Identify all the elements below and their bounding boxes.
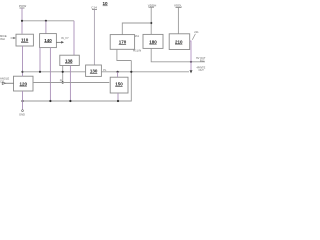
wire branch to block 170: [122, 23, 151, 35]
wire block 150 bottom pin: [117, 93, 119, 101]
wire block 120 bottom to ground terminal: [22, 91, 24, 110]
block 140: [40, 34, 57, 48]
svg-text:161: 161: [135, 35, 140, 38]
svg-text:170: 170: [119, 40, 127, 45]
node junction bus/B2: [45, 20, 47, 22]
block 130: [86, 65, 102, 76]
label 211 with leader: [192, 30, 199, 40]
svg-text:110: 110: [21, 38, 29, 43]
wire C14 stem down to block 130: [93, 9, 95, 65]
wire L1 horizontal right: [101, 71, 189, 73]
svg-text:180: 180: [149, 39, 157, 44]
wire input arrow into block 120: [2, 82, 13, 84]
node junction bus left end: [21, 100, 23, 102]
wire block 138 pin 1 down to L2: [62, 66, 64, 83]
label ANGLE CO input: [0, 77, 9, 84]
node junction on L2: [62, 81, 64, 83]
node junction L1 drop to block 150: [117, 71, 119, 73]
block 110: [16, 34, 33, 46]
wire block 210 output right then down: [190, 41, 191, 70]
node junction bus/70: [69, 100, 71, 102]
node junction on L1: [39, 71, 41, 73]
node junction on bottom bus: [117, 100, 119, 102]
svg-text:120: 120: [20, 81, 28, 86]
svg-text:GND: GND: [19, 113, 25, 117]
block 180: [143, 34, 163, 48]
terminal C14 (top middle): [91, 6, 97, 10]
svg-text:VDDL: VDDL: [174, 3, 182, 7]
node junction L1/x131: [130, 71, 132, 73]
svg-text:POW: POW: [19, 4, 26, 8]
label 4P/NTE OUT: [197, 66, 206, 72]
terminal VDDL (top right 2): [174, 3, 182, 7]
block 120: [14, 76, 34, 91]
block 210: [169, 34, 190, 50]
label MICE INH input: [0, 34, 7, 41]
svg-text:140: 140: [44, 38, 52, 43]
svg-text:H1L/N: H1L/N: [133, 48, 141, 52]
node junction L1 left end: [21, 71, 23, 73]
svg-text:B12: B12: [200, 59, 205, 62]
node junction line A / 191: [190, 61, 192, 63]
wire top bus: [22, 20, 74, 22]
wire input arrow into block 110: [11, 37, 16, 39]
svg-text:211: 211: [194, 30, 199, 34]
figure number 10: [103, 1, 109, 6]
arrow down onto L1: [190, 70, 193, 73]
node junction VDDH branch: [150, 22, 152, 24]
wire block 180 bottom pin to output line A: [151, 48, 205, 61]
svg-text:INH: INH: [0, 37, 5, 41]
block 170: [110, 35, 134, 50]
wire bus corner down to block 138: [73, 21, 75, 55]
svg-text:138: 138: [65, 58, 73, 63]
svg-text:130: 130: [90, 69, 98, 74]
svg-text:IN_VY: IN_VY: [61, 36, 69, 40]
svg-text:OUT: OUT: [199, 69, 205, 72]
terminal VDDH (top right 1): [148, 3, 157, 7]
svg-text:210: 210: [175, 39, 183, 44]
wire block 140 pin 1 down: [39, 48, 41, 72]
block 138: [60, 55, 80, 65]
wire L2 from block 120 to block 150: [33, 82, 109, 84]
wire vertical x131 down to bottom bus corner: [22, 61, 131, 102]
svg-text:10: 10: [103, 1, 109, 6]
wire L1 horizontal left: [23, 71, 86, 73]
wire output arrow of block 140: [56, 41, 64, 44]
wire block 170 pin path down right: [117, 49, 131, 60]
wire VDDL stem down to block 210: [177, 7, 179, 33]
wire block 138 pin 2 down to bottom bus: [69, 66, 71, 102]
wire drop into block 150 top: [117, 72, 119, 77]
node junction bus/POW: [21, 20, 23, 22]
label HV OUT: [196, 57, 206, 63]
wire block 140 pin 2 down to bottom bus: [49, 48, 51, 101]
node junction bus/50: [49, 100, 51, 102]
ground terminal circle: [22, 110, 24, 112]
block 150: [110, 77, 128, 93]
svg-text:150: 150: [115, 82, 123, 87]
wire bus drop to block 140: [45, 21, 47, 34]
wire VDDH stem down to block 180: [150, 7, 152, 34]
wire POW stem: [21, 8, 23, 34]
wire block 110 down through node to block 120: [22, 46, 24, 76]
power terminal POW (top left): [19, 4, 26, 8]
